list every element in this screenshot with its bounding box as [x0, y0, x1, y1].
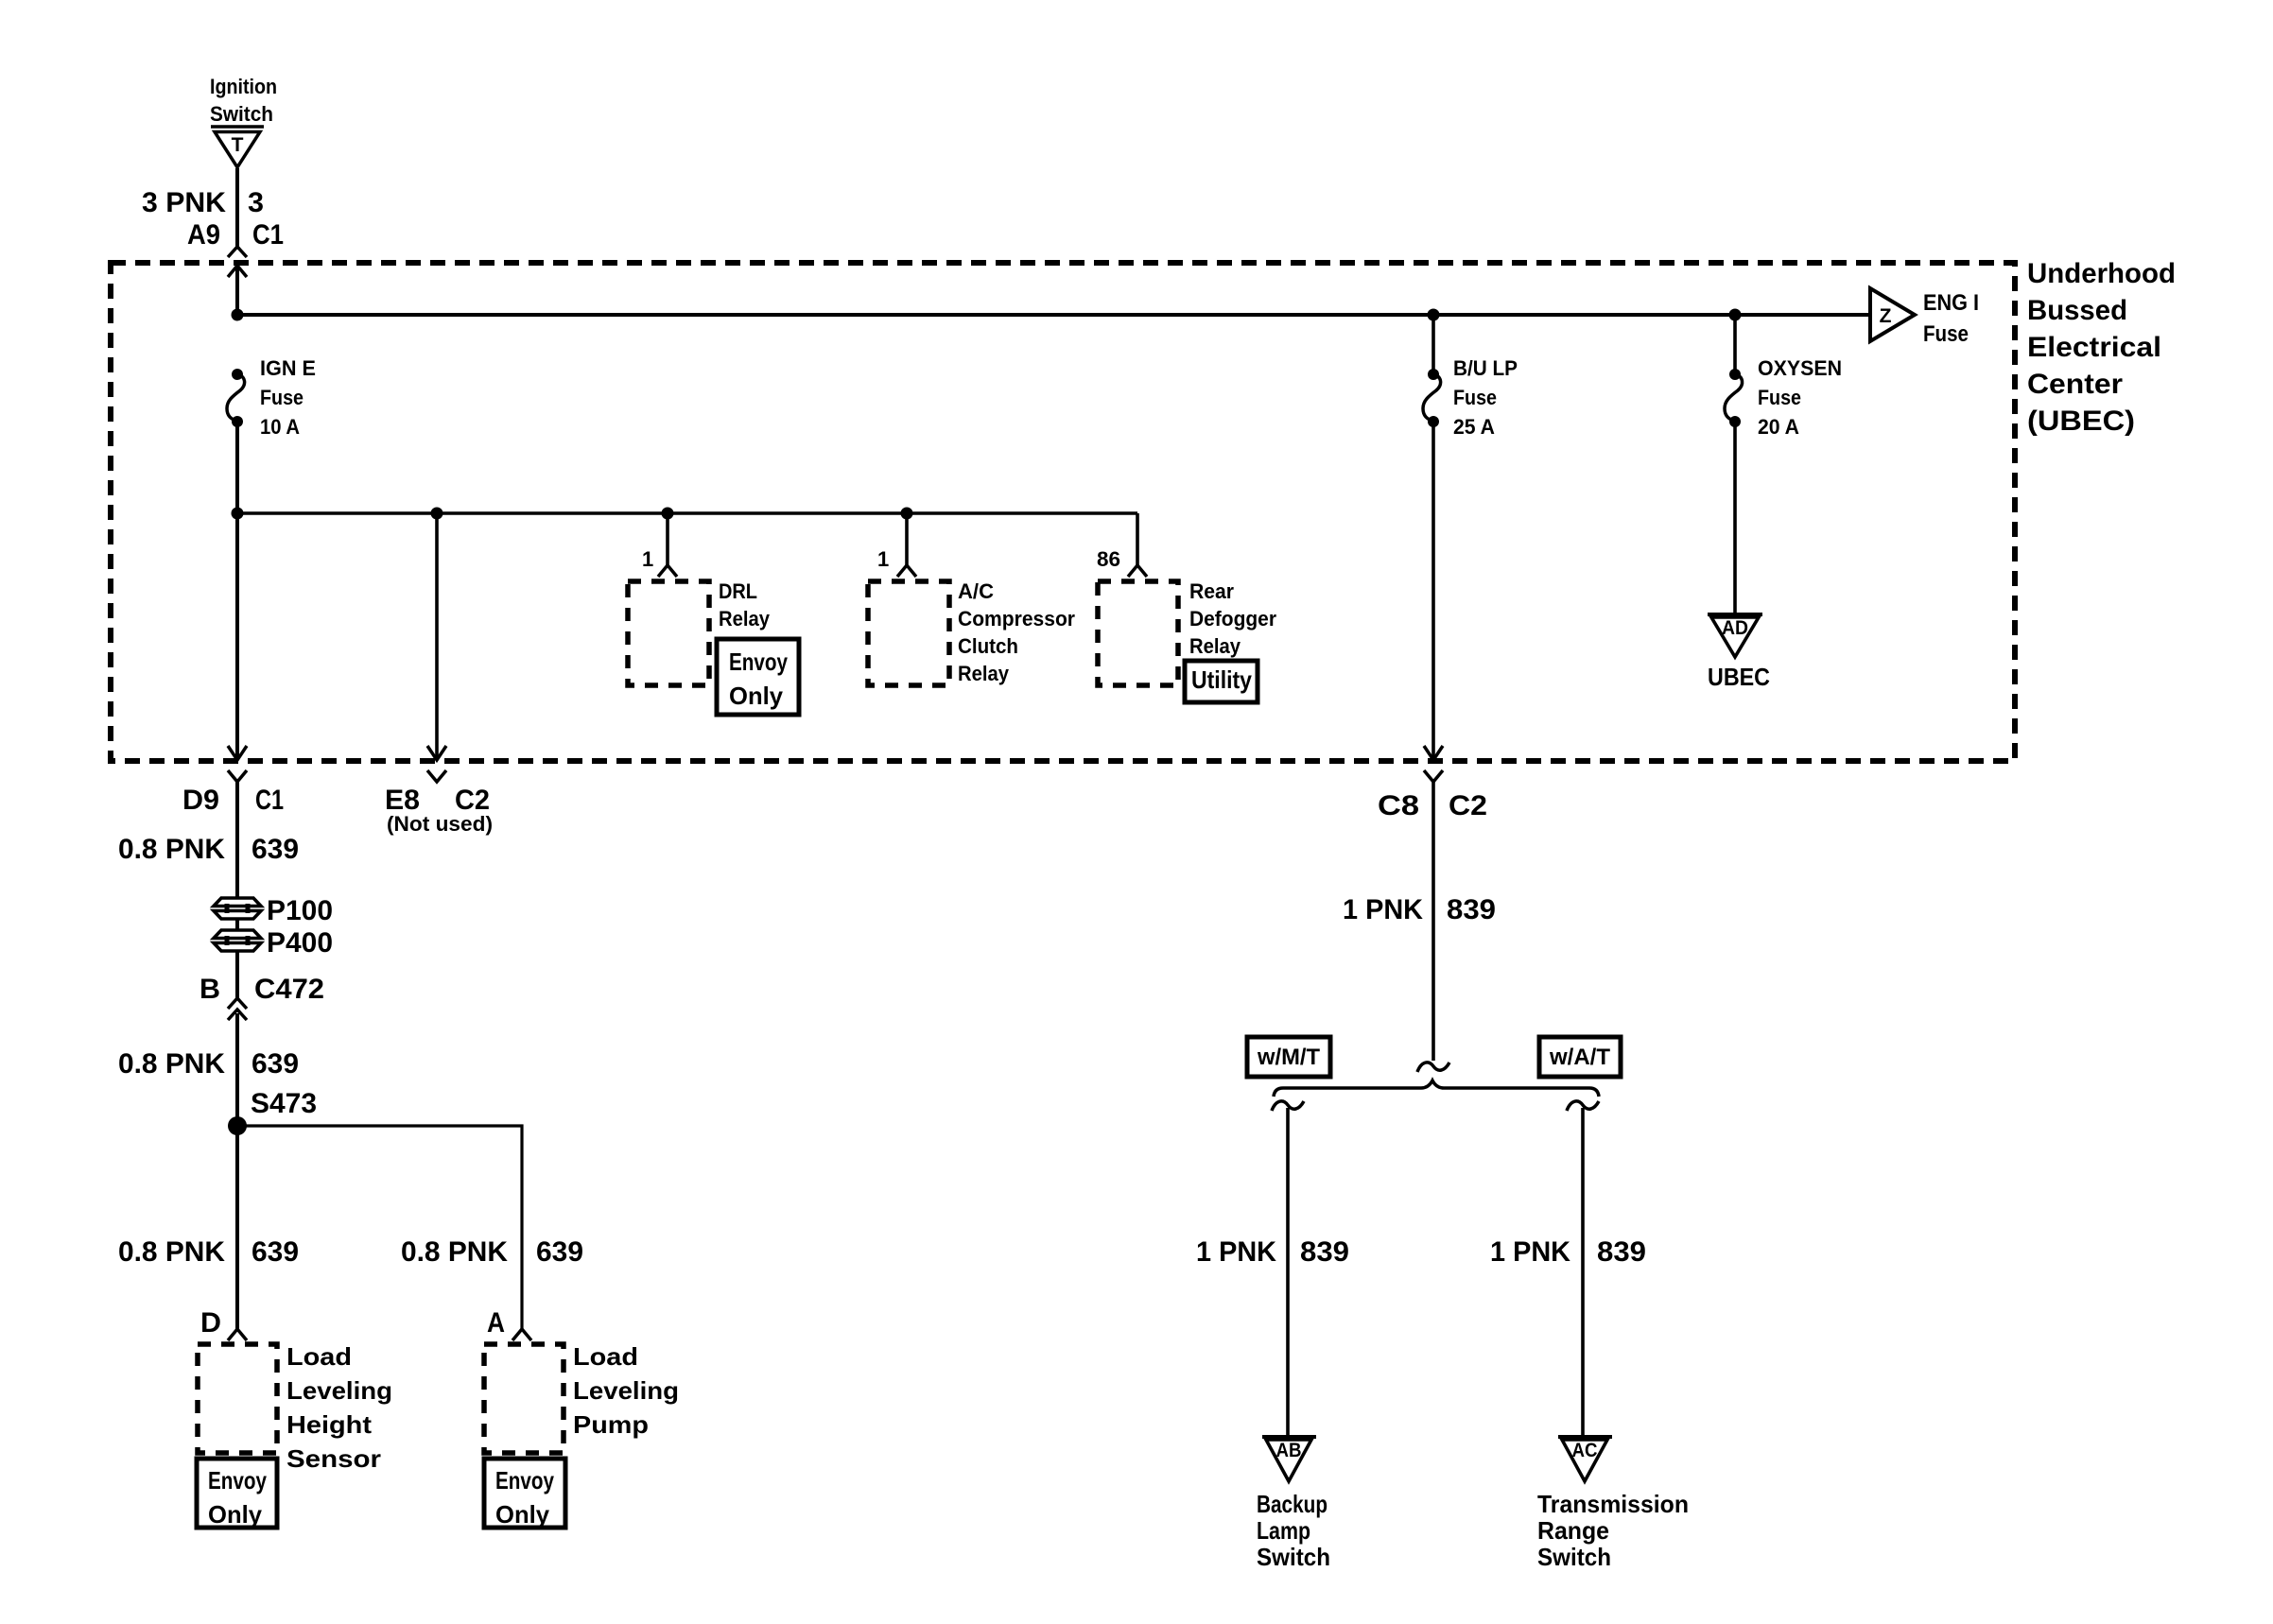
- node: splice S473 dot: [228, 1116, 247, 1135]
- wire: E8 drop to UBEC bottom: [435, 513, 439, 758]
- wire label 1 PNK 839 (w/M/T branch): [1196, 1236, 1349, 1268]
- wire: OXYSEN fuse drop: [1733, 315, 1737, 374]
- svg-text:Only: Only: [208, 1500, 263, 1529]
- svg-text:B: B: [200, 974, 220, 1005]
- svg-text:0.8 PNK: 0.8 PNK: [401, 1236, 508, 1268]
- wire: A/C relay drop: [905, 513, 909, 565]
- svg-text:w/M/T: w/M/T: [1257, 1045, 1320, 1070]
- svg-text:C472: C472: [254, 974, 324, 1005]
- connector pin labels E8 / C2: [385, 785, 490, 816]
- connector half at height sensor: [228, 1329, 247, 1340]
- svg-text:Electrical: Electrical: [2027, 332, 2161, 363]
- wire: rear defogger relay drop (bus2 corner): [1136, 513, 1139, 565]
- svg-text:UBEC: UBEC: [1708, 663, 1770, 691]
- arrow out of UBEC bottom (E8): [427, 746, 446, 760]
- svg-text:T: T: [232, 134, 244, 156]
- svg-text:Relay: Relay: [958, 662, 1010, 685]
- connector pin labels A9 / C1: [187, 219, 284, 251]
- svg-text:Ignition: Ignition: [210, 75, 277, 98]
- connector pin labels B / C472: [200, 974, 324, 1005]
- svg-text:D: D: [200, 1307, 221, 1339]
- fuse B/U LP 25 A: [1423, 356, 1518, 439]
- node: junction dot E8 drop: [431, 508, 443, 520]
- label: Load Leveling Pump: [573, 1342, 679, 1439]
- wire: B/U LP fuse drop: [1431, 315, 1435, 374]
- svg-text:OXYSEN: OXYSEN: [1758, 356, 1842, 380]
- arrow out of UBEC bottom (C8): [1424, 746, 1443, 760]
- wire: S473 branch to load leveling pump: [237, 1126, 522, 1329]
- option split brace: [1274, 1080, 1599, 1097]
- svg-text:Fuse: Fuse: [1758, 386, 1801, 409]
- svg-text:839: 839: [1597, 1236, 1646, 1268]
- svg-text:Compressor: Compressor: [958, 607, 1075, 631]
- node: junction dot DRL drop: [662, 508, 674, 520]
- fuse OXYSEN 20 A: [1725, 356, 1842, 439]
- svg-text:w/A/T: w/A/T: [1549, 1045, 1610, 1070]
- svg-text:1 PNK: 1 PNK: [1343, 894, 1423, 925]
- svg-text:Load: Load: [286, 1342, 352, 1371]
- svg-text:D9: D9: [182, 785, 219, 816]
- wire label 0.8 PNK 639 (left branch): [118, 1236, 299, 1268]
- svg-text:Center: Center: [2027, 369, 2123, 400]
- wire: bus1 horizontal feed inside UBEC: [237, 313, 1870, 317]
- svg-text:Leveling: Leveling: [573, 1376, 679, 1405]
- svg-text:P100: P100: [267, 895, 333, 926]
- wire label 1 PNK 839 (top): [1343, 894, 1496, 925]
- connector half at A/C relay: [897, 565, 916, 577]
- svg-text:Pump: Pump: [573, 1410, 649, 1439]
- component: Load Leveling Pump (dashed box): [484, 1344, 564, 1453]
- svg-text:A: A: [487, 1307, 505, 1339]
- option box w/A/T: [1539, 1037, 1621, 1077]
- svg-text:DRL: DRL: [719, 579, 757, 603]
- svg-text:AD: AD: [1722, 617, 1748, 639]
- svg-text:639: 639: [252, 1236, 299, 1268]
- svg-text:(Not used): (Not used): [387, 812, 493, 836]
- svg-text:Rear: Rear: [1189, 579, 1234, 603]
- svg-text:25 A: 25 A: [1453, 415, 1495, 439]
- wire: ignition switch to UBEC connector C1: [235, 168, 239, 247]
- svg-text:639: 639: [252, 834, 299, 865]
- connector half at rear defogger relay: [1128, 565, 1147, 577]
- svg-text:3 PNK: 3 PNK: [142, 187, 226, 218]
- svg-text:Relay: Relay: [1189, 634, 1241, 658]
- svg-text:Range: Range: [1537, 1516, 1609, 1545]
- svg-text:0.8 PNK: 0.8 PNK: [118, 1236, 225, 1268]
- svg-text:C1: C1: [255, 785, 284, 816]
- connector half (outside) at UBEC top: [228, 247, 247, 257]
- connector half at pump: [512, 1329, 531, 1340]
- label: A/C Compressor Clutch Relay: [958, 579, 1075, 685]
- Envoy Only box (height sensor): [197, 1459, 277, 1529]
- destination triangle AB (Backup Lamp Switch): [1262, 1437, 1316, 1481]
- svg-text:1 PNK: 1 PNK: [1196, 1236, 1276, 1268]
- wire: IGN E fuse down to bus2 and UBEC bottom: [235, 422, 239, 758]
- label: Load Leveling Height Sensor: [286, 1342, 392, 1473]
- svg-text:Height: Height: [286, 1410, 372, 1439]
- wire label 0.8 PNK 639 (first): [118, 834, 299, 865]
- svg-text:AB: AB: [1276, 1440, 1302, 1461]
- svg-text:S473: S473: [251, 1088, 317, 1119]
- svg-text:639: 639: [536, 1236, 583, 1268]
- wire break squiggle at top of w/A/T branch: [1567, 1101, 1599, 1111]
- svg-text:A/C: A/C: [958, 579, 994, 603]
- destination triangle AD (UBEC): [1708, 614, 1762, 657]
- component: A/C Compressor Clutch Relay (dashed box): [868, 581, 949, 685]
- connector half at DRL relay: [658, 565, 677, 577]
- ignition switch source triangle T: [211, 127, 264, 167]
- svg-text:Envoy: Envoy: [729, 648, 788, 676]
- svg-text:Switch: Switch: [210, 102, 273, 126]
- svg-text:0.8 PNK: 0.8 PNK: [118, 834, 225, 865]
- svg-text:639: 639: [252, 1048, 299, 1080]
- svg-text:Transmission: Transmission: [1537, 1490, 1689, 1518]
- wire label 3 PNK 3: [142, 187, 264, 218]
- svg-text:Backup: Backup: [1257, 1490, 1327, 1518]
- connector half below UBEC (E8/C2 not used): [427, 770, 446, 782]
- label: Rear Defogger Relay: [1189, 579, 1276, 658]
- svg-text:10 A: 10 A: [260, 415, 300, 439]
- svg-text:C2: C2: [1449, 790, 1487, 821]
- arrow into UBEC at top (C1): [228, 266, 247, 315]
- destination triangle Z (ENG I Fuse): [1870, 288, 1915, 341]
- svg-text:20 A: 20 A: [1758, 415, 1799, 439]
- svg-text:3: 3: [248, 187, 264, 218]
- Envoy Only box (pump): [484, 1459, 565, 1529]
- connector half below UBEC (C8/C2): [1424, 770, 1443, 1061]
- svg-text:Switch: Switch: [1257, 1543, 1330, 1571]
- UBEC dashed box: [111, 263, 2015, 761]
- wire break squiggle at end of 1 PNK 839: [1417, 1063, 1449, 1072]
- Utility box: [1185, 661, 1258, 702]
- node: junction dot B/U LP: [1428, 309, 1440, 321]
- Envoy Only box (DRL relay): [717, 639, 799, 715]
- svg-text:(UBEC): (UBEC): [2027, 406, 2135, 437]
- label: Transmission Range Switch: [1537, 1490, 1689, 1571]
- svg-text:1 PNK: 1 PNK: [1490, 1236, 1570, 1268]
- wire: w/M/T branch to backup lamp switch: [1286, 1108, 1290, 1436]
- svg-text:ENG I: ENG I: [1923, 290, 1979, 316]
- component: DRL Relay (dashed box): [628, 581, 709, 685]
- svg-text:Bussed: Bussed: [2027, 295, 2127, 326]
- wire label 0.8 PNK 639 (right branch): [401, 1236, 583, 1268]
- node: junction dot bus2 left: [232, 508, 244, 520]
- wire: S473 down to load leveling height sensor: [235, 1126, 239, 1329]
- svg-text:Only: Only: [495, 1500, 550, 1529]
- svg-text:C8: C8: [1378, 790, 1419, 821]
- svg-text:Envoy: Envoy: [208, 1466, 267, 1494]
- svg-text:Envoy: Envoy: [495, 1466, 554, 1494]
- wire: OXYSEN fuse to AD triangle: [1733, 422, 1737, 615]
- svg-text:Fuse: Fuse: [1453, 386, 1497, 409]
- label: Underhood Bussed Electrical Center (UBEC): [2027, 258, 2176, 437]
- svg-text:1: 1: [877, 547, 889, 571]
- wire: DRL relay drop: [666, 513, 669, 565]
- component: Load Leveling Height Sensor (dashed box): [198, 1344, 277, 1453]
- svg-text:839: 839: [1447, 894, 1496, 925]
- arrow out of UBEC bottom (C1 D9): [228, 746, 247, 760]
- svg-text:Lamp: Lamp: [1257, 1516, 1310, 1545]
- svg-text:C1: C1: [252, 219, 284, 251]
- svg-text:IGN E: IGN E: [260, 356, 316, 380]
- svg-text:P400: P400: [267, 927, 333, 959]
- label: Backup Lamp Switch: [1257, 1490, 1330, 1571]
- svg-text:Leveling: Leveling: [286, 1376, 392, 1405]
- svg-text:Only: Only: [729, 682, 784, 710]
- svg-text:Fuse: Fuse: [1923, 321, 1969, 347]
- svg-text:Defogger: Defogger: [1189, 607, 1276, 631]
- svg-text:Sensor: Sensor: [286, 1444, 381, 1473]
- wire between grommets: [235, 919, 239, 930]
- svg-text:Utility: Utility: [1191, 665, 1252, 694]
- wire: w/A/T branch to transmission range switch: [1581, 1108, 1585, 1436]
- wire: C472 to splice S473: [235, 1013, 239, 1126]
- component: Rear Defogger Relay (dashed box): [1098, 581, 1178, 685]
- svg-text:Relay: Relay: [719, 607, 771, 631]
- connector pin labels D9 / C1: [182, 785, 284, 816]
- svg-text:Clutch: Clutch: [958, 634, 1018, 658]
- svg-text:839: 839: [1300, 1236, 1349, 1268]
- grommet P100: [214, 898, 261, 919]
- label: Ignition Switch: [210, 75, 277, 126]
- wire label 0.8 PNK 639 (second): [118, 1048, 299, 1080]
- grommet P400: [214, 930, 261, 951]
- destination triangle AC (Transmission Range Switch): [1558, 1437, 1612, 1481]
- connector pin labels C8 / C2: [1378, 790, 1487, 821]
- svg-text:Underhood: Underhood: [2027, 258, 2176, 289]
- wire: bus2 horizontal relay feed: [237, 511, 1137, 515]
- node: junction dot A/C drop: [901, 508, 913, 520]
- label: DRL Relay: [719, 579, 771, 631]
- svg-text:AC: AC: [1572, 1440, 1598, 1461]
- svg-text:Switch: Switch: [1537, 1543, 1611, 1571]
- svg-text:0.8 PNK: 0.8 PNK: [118, 1048, 225, 1080]
- svg-text:B/U LP: B/U LP: [1453, 356, 1518, 380]
- wire: P400 to C472: [235, 950, 239, 998]
- svg-text:Fuse: Fuse: [260, 386, 304, 409]
- svg-text:1: 1: [642, 547, 653, 571]
- label ENG I Fuse: [1923, 290, 1979, 347]
- node: junction dot OXYSEN: [1729, 309, 1742, 321]
- wire break squiggle at top of w/M/T branch: [1272, 1101, 1304, 1111]
- svg-text:86: 86: [1097, 547, 1120, 571]
- fuse IGN E 10 A: [227, 356, 316, 439]
- wire label 1 PNK 839 (w/A/T branch): [1490, 1236, 1646, 1268]
- svg-text:Load: Load: [573, 1342, 638, 1371]
- svg-text:Z: Z: [1880, 305, 1892, 327]
- wire: B/U LP fuse to UBEC bottom: [1431, 422, 1435, 758]
- svg-text:A9: A9: [187, 219, 220, 251]
- option box w/M/T: [1247, 1037, 1330, 1077]
- connector C472 chevrons: [228, 998, 247, 1020]
- connector half below UBEC (D9/C1): [228, 770, 247, 897]
- node: junction dot bus1 left: [232, 309, 244, 321]
